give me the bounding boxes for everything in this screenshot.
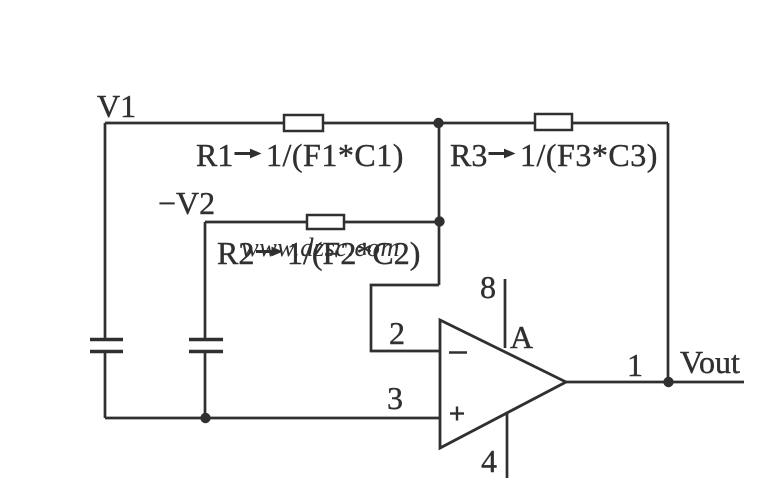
svg-text:R1: R1 <box>196 137 233 173</box>
svg-text:A: A <box>510 319 533 355</box>
svg-text:R3: R3 <box>450 137 487 173</box>
svg-text:4: 4 <box>481 443 497 479</box>
svg-text:1/(F3*C3): 1/(F3*C3) <box>520 137 658 173</box>
svg-text:1/(F1*C1): 1/(F1*C1) <box>266 137 404 173</box>
svg-text:−V2: −V2 <box>158 185 215 221</box>
svg-text:R2: R2 <box>217 235 254 271</box>
svg-text:1/(F2*C2): 1/(F2*C2) <box>287 235 420 271</box>
svg-text:8: 8 <box>480 269 496 305</box>
svg-text:V1: V1 <box>97 88 136 124</box>
svg-text:2: 2 <box>389 315 405 351</box>
svg-text:3: 3 <box>387 380 403 416</box>
svg-text:1: 1 <box>627 347 643 383</box>
svg-text:Vout: Vout <box>680 344 740 380</box>
